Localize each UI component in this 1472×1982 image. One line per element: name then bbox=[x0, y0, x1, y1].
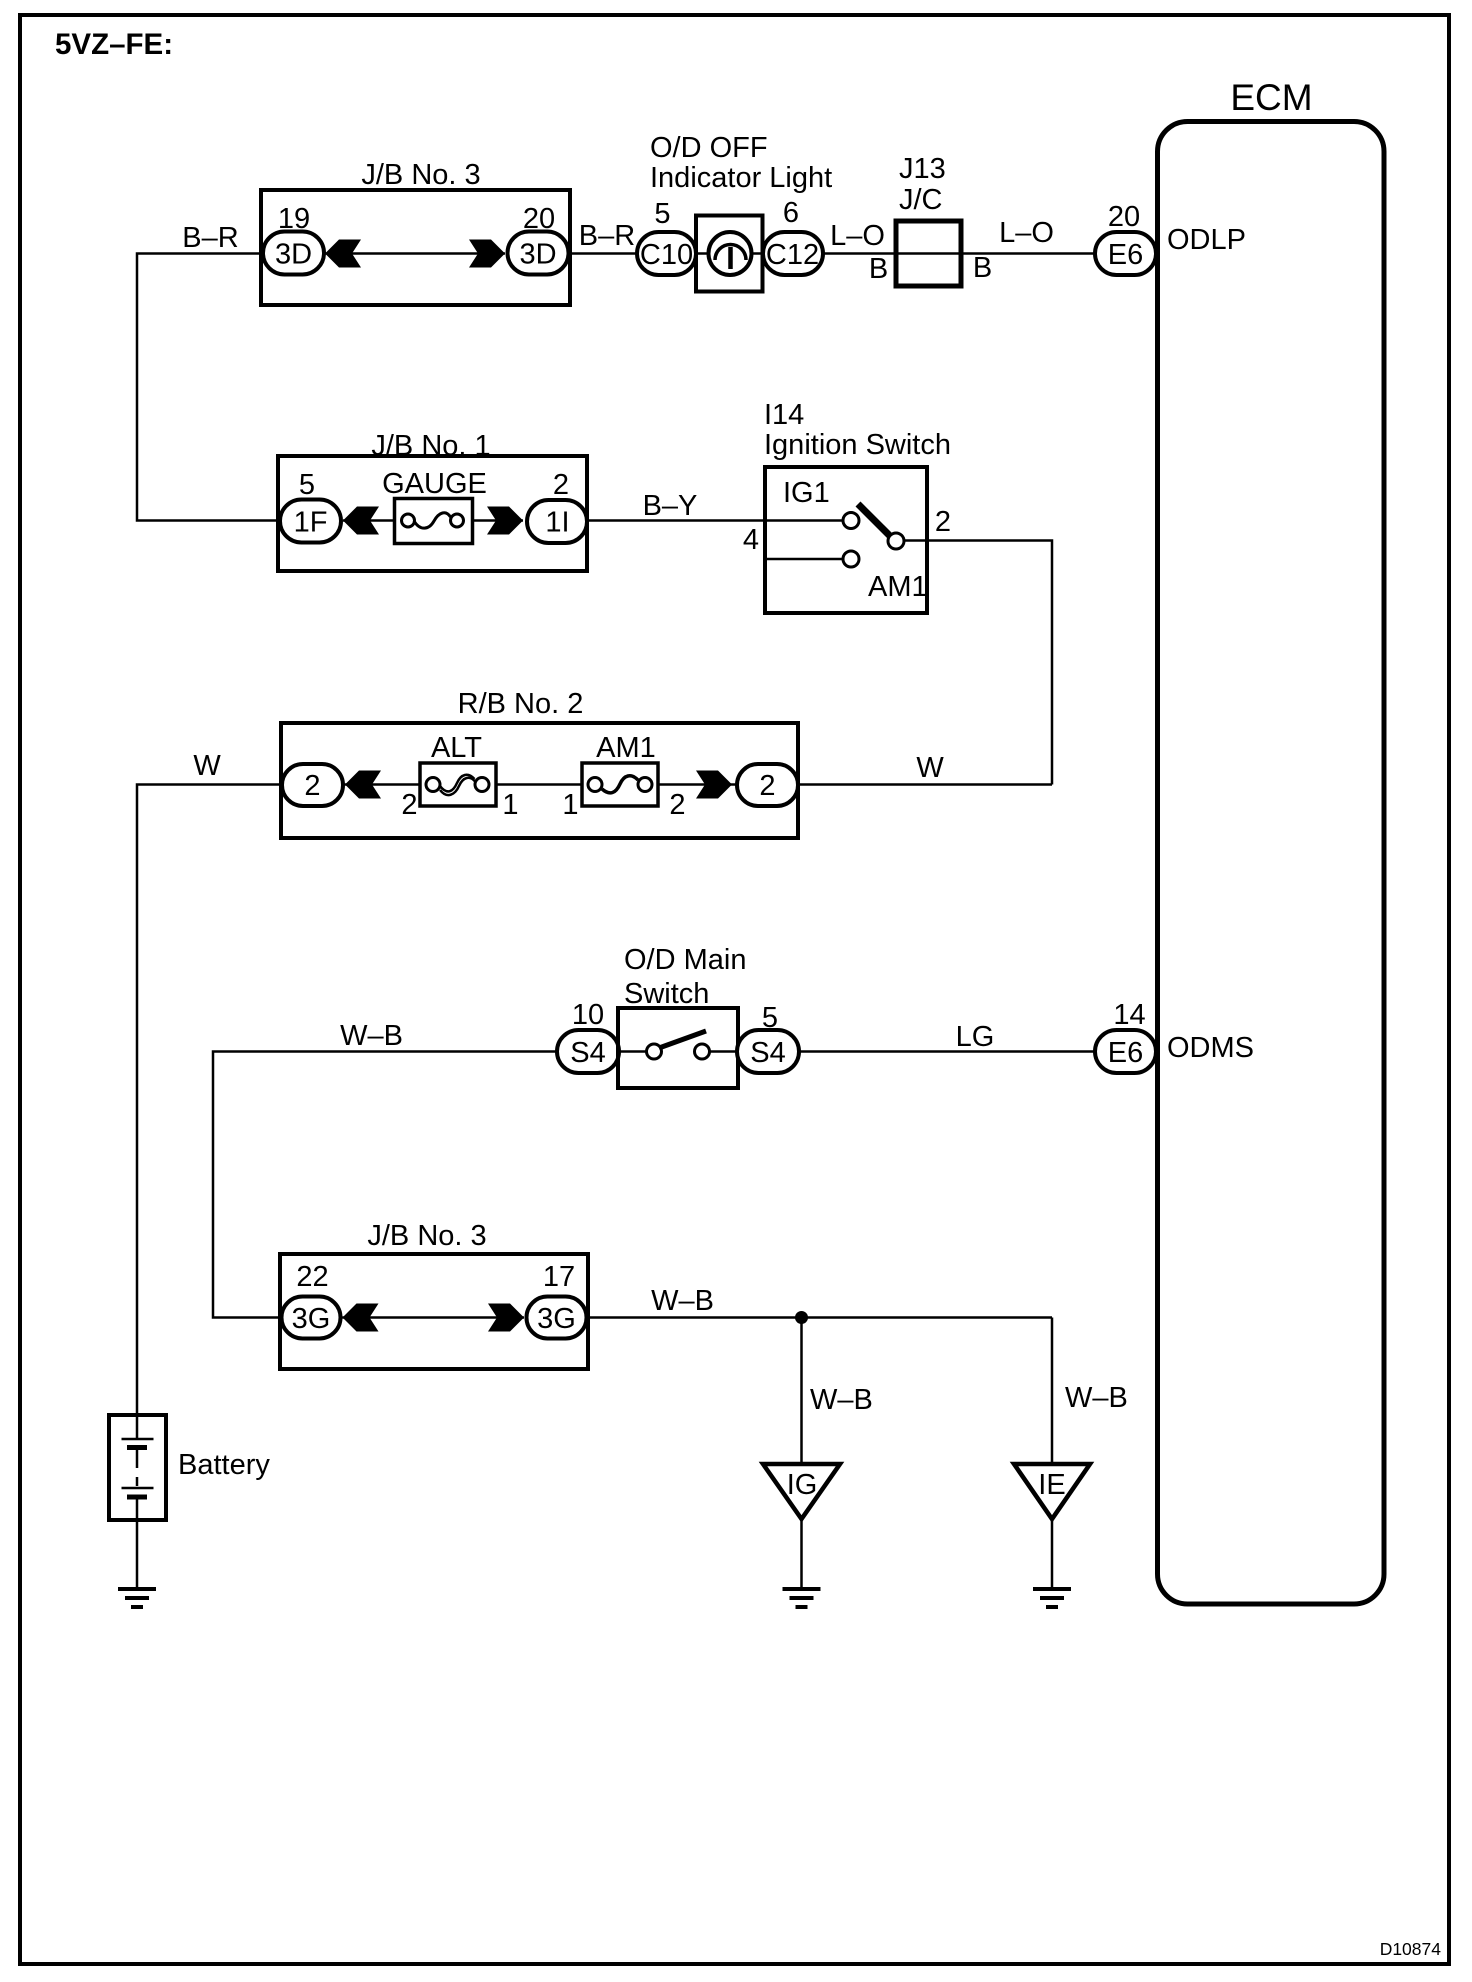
O/D main switch bbox=[618, 944, 746, 1088]
ECM block bbox=[1158, 77, 1385, 1604]
junction node bbox=[795, 1311, 808, 1324]
svg-text:Indicator Light: Indicator Light bbox=[650, 162, 832, 194]
svg-text:IG: IG bbox=[787, 1469, 818, 1501]
wire inside J/B No.3 bottom bbox=[343, 1316, 525, 1319]
svg-text:J/B No. 1: J/B No. 1 bbox=[371, 430, 490, 462]
svg-text:R/B No. 2: R/B No. 2 bbox=[458, 688, 584, 720]
svg-text:14: 14 bbox=[1113, 999, 1145, 1031]
svg-text:E6: E6 bbox=[1108, 1037, 1143, 1069]
arrow left (J/B No.1) bbox=[343, 507, 379, 535]
O/D OFF indicator light lamp bbox=[650, 132, 832, 292]
svg-text:Battery: Battery bbox=[178, 1449, 270, 1481]
svg-text:W: W bbox=[916, 752, 944, 784]
svg-text:B: B bbox=[869, 253, 888, 285]
svg-text:4: 4 bbox=[743, 524, 759, 556]
connector 1I pin 2 bbox=[527, 469, 587, 543]
ground connector IG bbox=[763, 1464, 840, 1589]
svg-text:5: 5 bbox=[299, 469, 315, 501]
wire B-R to indicator light bbox=[570, 252, 637, 255]
svg-text:L–O: L–O bbox=[999, 217, 1054, 249]
junction block J/B No.3 (top) bbox=[261, 159, 570, 305]
svg-text:D10874: D10874 bbox=[1380, 1939, 1442, 1959]
fuse AM1 bbox=[562, 732, 685, 821]
wire inside J/B No.3 top bbox=[325, 252, 505, 255]
connector E6 pin 20 bbox=[1095, 201, 1156, 275]
wire inside J/B No.1 bbox=[343, 519, 402, 522]
svg-text:O/D Main: O/D Main bbox=[624, 944, 746, 976]
svg-text:1: 1 bbox=[562, 789, 578, 821]
connector 3D pin 19 bbox=[263, 203, 324, 275]
svg-text:Ignition Switch: Ignition Switch bbox=[764, 429, 951, 461]
svg-text:3G: 3G bbox=[292, 1303, 331, 1335]
wire W-B from J/B No.3 to grounds bbox=[587, 1316, 1053, 1319]
svg-text:5: 5 bbox=[762, 1002, 778, 1034]
connector S4 pin 5 bbox=[737, 1002, 799, 1073]
svg-text:3D: 3D bbox=[519, 239, 556, 271]
connector 1F pin 5 bbox=[280, 469, 341, 543]
relay block R/B No.2 bbox=[281, 688, 798, 838]
svg-text:2: 2 bbox=[401, 789, 417, 821]
svg-text:S4: S4 bbox=[750, 1037, 785, 1069]
fuse GAUGE bbox=[382, 468, 487, 544]
svg-text:20: 20 bbox=[1108, 201, 1140, 233]
svg-text:2: 2 bbox=[759, 770, 775, 802]
wire LG to ECM E6 bbox=[799, 1050, 1095, 1053]
svg-text:IE: IE bbox=[1038, 1469, 1065, 1501]
svg-text:6: 6 bbox=[783, 197, 799, 229]
svg-text:GAUGE: GAUGE bbox=[382, 468, 487, 500]
svg-text:W–B: W–B bbox=[1065, 1382, 1128, 1414]
svg-text:ODMS: ODMS bbox=[1167, 1032, 1254, 1064]
ignition switch I14 bbox=[764, 399, 951, 613]
svg-text:17: 17 bbox=[543, 1261, 575, 1293]
wire L-O to ECM E6 bbox=[961, 252, 1095, 255]
wires inside R/B No.2 bbox=[343, 783, 426, 786]
svg-text:1I: 1I bbox=[545, 507, 569, 539]
wire W from R/B No.2 to ignition switch node bbox=[798, 783, 1052, 786]
svg-text:C10: C10 bbox=[640, 239, 693, 271]
wire down to IE ground bbox=[1051, 1318, 1054, 1465]
ground connector IE bbox=[1014, 1464, 1090, 1589]
connector 2 (right) bbox=[737, 764, 798, 806]
ground symbol (IG) bbox=[783, 1589, 821, 1607]
connector E6 pin 14 bbox=[1095, 999, 1156, 1073]
connector 3G pin 22 bbox=[282, 1261, 341, 1339]
connector 2 (left) bbox=[282, 764, 343, 806]
svg-text:22: 22 bbox=[296, 1261, 328, 1293]
wire B-Y to ignition switch bbox=[587, 519, 843, 522]
junction connector J13 J/C bbox=[896, 153, 961, 286]
svg-text:5: 5 bbox=[654, 198, 670, 230]
arrow left (R/B No.2) bbox=[345, 771, 381, 799]
junction block J/B No.1 bbox=[278, 430, 587, 571]
svg-text:2: 2 bbox=[669, 789, 685, 821]
svg-text:J/B No. 3: J/B No. 3 bbox=[361, 159, 480, 191]
svg-text:3G: 3G bbox=[537, 1303, 576, 1335]
fusible link ALT bbox=[401, 732, 518, 821]
svg-text:19: 19 bbox=[278, 203, 310, 235]
wire L-O to junction connector bbox=[823, 252, 896, 255]
svg-text:O/D OFF: O/D OFF bbox=[650, 132, 768, 164]
svg-text:Switch: Switch bbox=[624, 978, 709, 1010]
svg-text:W–B: W–B bbox=[651, 1285, 714, 1317]
svg-text:10: 10 bbox=[572, 999, 604, 1031]
svg-text:3D: 3D bbox=[275, 239, 312, 271]
wire from ignition switch pin 2 down to R/B No.2 bbox=[904, 541, 1052, 785]
svg-text:5VZ–FE:: 5VZ–FE: bbox=[55, 28, 173, 61]
wire B-R from node to J/B No.3 and down to J/B No.1 bbox=[137, 254, 280, 521]
svg-text:2: 2 bbox=[304, 770, 320, 802]
svg-text:J13: J13 bbox=[899, 153, 946, 185]
svg-text:2: 2 bbox=[553, 469, 569, 501]
arrow left (J/B No.3 top) bbox=[325, 240, 361, 268]
arrow left (J/B No.3 bottom) bbox=[343, 1304, 379, 1332]
arrow right (R/B No.2) bbox=[696, 771, 732, 799]
wire W from battery node to R/B No.2 bbox=[137, 785, 282, 1439]
svg-text:20: 20 bbox=[523, 203, 555, 235]
ground symbol (IE) bbox=[1033, 1589, 1071, 1607]
wire down to IG ground bbox=[800, 1318, 803, 1465]
svg-text:ODLP: ODLP bbox=[1167, 224, 1246, 256]
connector S4 pin 10 bbox=[557, 999, 619, 1073]
svg-text:ALT: ALT bbox=[431, 732, 482, 764]
connector C12 pin 6 bbox=[763, 197, 823, 275]
svg-text:AM1: AM1 bbox=[868, 571, 928, 603]
svg-text:W: W bbox=[193, 750, 221, 782]
svg-text:B–Y: B–Y bbox=[643, 490, 698, 522]
svg-text:ECM: ECM bbox=[1230, 77, 1312, 118]
svg-text:2: 2 bbox=[935, 506, 951, 538]
svg-text:L–O: L–O bbox=[830, 220, 885, 252]
svg-text:J/C: J/C bbox=[899, 184, 943, 216]
svg-text:LG: LG bbox=[956, 1021, 995, 1053]
battery bbox=[109, 1415, 270, 1589]
svg-text:E6: E6 bbox=[1108, 239, 1143, 271]
arrow right (J/B No.1) bbox=[487, 507, 523, 535]
svg-text:B: B bbox=[973, 252, 992, 284]
svg-text:1F: 1F bbox=[294, 507, 328, 539]
connector C10 pin 5 bbox=[637, 198, 696, 275]
svg-text:1: 1 bbox=[502, 789, 518, 821]
svg-text:B–R: B–R bbox=[182, 222, 238, 254]
wire W-B from O/D main switch down to J/B No.3 bbox=[213, 1052, 557, 1318]
connector 3G pin 17 bbox=[527, 1261, 587, 1339]
svg-text:AM1: AM1 bbox=[596, 732, 656, 764]
svg-text:S4: S4 bbox=[570, 1037, 605, 1069]
arrow right (J/B No.3 top) bbox=[469, 240, 505, 268]
arrow right (J/B No.3 bottom) bbox=[488, 1304, 524, 1332]
svg-text:B–R: B–R bbox=[579, 220, 635, 252]
svg-text:J/B No. 3: J/B No. 3 bbox=[367, 1220, 486, 1252]
svg-text:W–B: W–B bbox=[340, 1020, 403, 1052]
svg-text:I14: I14 bbox=[764, 399, 804, 431]
svg-text:IG1: IG1 bbox=[783, 477, 830, 509]
ground symbol (battery) bbox=[118, 1589, 156, 1607]
svg-text:W–B: W–B bbox=[810, 1384, 873, 1416]
connector 3D pin 20 bbox=[508, 203, 569, 275]
svg-text:C12: C12 bbox=[766, 239, 819, 271]
junction block J/B No.3 (bottom) bbox=[280, 1220, 588, 1369]
